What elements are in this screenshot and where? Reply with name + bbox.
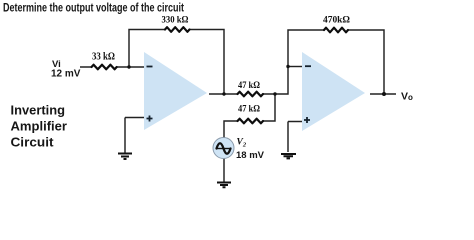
svg-text:Inverting: Inverting <box>11 104 66 118</box>
svg-text:330 kΩ: 330 kΩ <box>162 15 189 25</box>
svg-text:Vo: Vo <box>401 91 413 103</box>
svg-text:Amplifier: Amplifier <box>11 120 68 134</box>
svg-text:12 mV: 12 mV <box>51 69 81 80</box>
svg-text:470kΩ: 470kΩ <box>323 15 350 25</box>
svg-text:33 kΩ: 33 kΩ <box>92 52 115 63</box>
svg-text:47 kΩ: 47 kΩ <box>238 80 260 90</box>
svg-text:Circuit: Circuit <box>11 136 55 150</box>
svg-text:47 kΩ: 47 kΩ <box>238 104 260 114</box>
svg-text:18 mV: 18 mV <box>236 150 265 161</box>
svg-text:Determine the output voltage o: Determine the output voltage of the circ… <box>3 2 184 15</box>
